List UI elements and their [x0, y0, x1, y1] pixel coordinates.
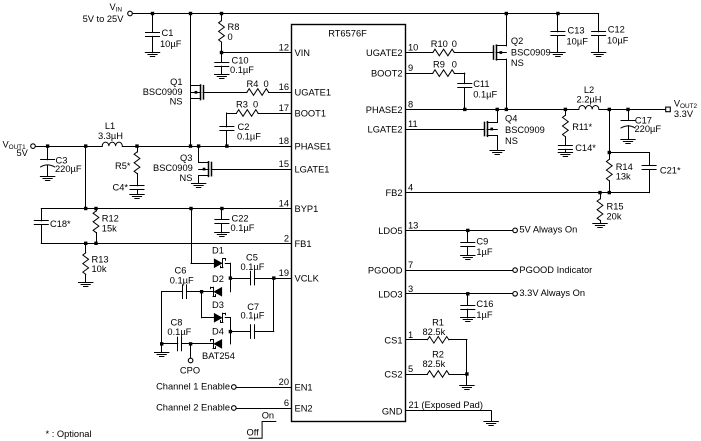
ground C4*	[130, 195, 144, 199]
svg-text:BSC0909: BSC0909	[143, 87, 183, 97]
svg-text:PHASE1: PHASE1	[295, 142, 332, 152]
svg-text:PGOOD Indicator: PGOOD Indicator	[519, 265, 592, 275]
svg-text:C18*: C18*	[50, 219, 71, 229]
svg-text:Q1: Q1	[170, 77, 182, 87]
svg-text:BOOT1: BOOT1	[295, 109, 327, 119]
capacitor C14*	[558, 143, 596, 153]
svg-text:LDO5: LDO5	[378, 226, 402, 236]
capacitor C9	[461, 230, 493, 257]
diode D2	[211, 274, 224, 297]
svg-text:D3: D3	[212, 300, 224, 310]
svg-text:1µF: 1µF	[476, 310, 493, 320]
wire pin 13 LDO5	[406, 229, 513, 232]
svg-text:R8: R8	[228, 22, 240, 32]
svg-text:1µF: 1µF	[476, 247, 493, 257]
svg-text:C8: C8	[171, 317, 183, 327]
terminal 3.3V Always On	[513, 288, 585, 298]
wire D4 to C8	[182, 342, 213, 345]
resistor R2	[423, 350, 449, 378]
svg-text:D2: D2	[212, 274, 224, 284]
ground C3	[40, 177, 54, 181]
node VOUT2 rail	[599, 108, 666, 111]
resistor R14	[606, 153, 632, 193]
svg-text:R3: R3	[236, 100, 248, 110]
svg-text:C2: C2	[238, 122, 250, 132]
wire R1 to CS join	[449, 339, 467, 341]
svg-text:FB1: FB1	[295, 239, 312, 249]
wire R2 to CS join	[449, 372, 469, 375]
svg-text:RT6576F: RT6576F	[328, 28, 367, 38]
svg-text:18: 18	[279, 136, 289, 146]
svg-text:R9: R9	[433, 60, 445, 70]
terminal Channel 1 Enable	[156, 382, 236, 392]
svg-text:14: 14	[279, 199, 289, 209]
wire R4 to pin 16 UGATE1	[269, 92, 292, 94]
wire VOUT1 to BYP1	[85, 146, 87, 208]
svg-text:8: 8	[408, 99, 413, 109]
svg-text:Q2: Q2	[511, 36, 523, 46]
svg-text:NS: NS	[170, 97, 183, 107]
svg-text:10µF: 10µF	[567, 36, 589, 46]
wire C7 to VCLK vertical	[255, 278, 274, 332]
capacitor C2	[220, 113, 261, 148]
resistor R5*	[115, 146, 140, 186]
svg-text:* : Optional: * : Optional	[46, 429, 92, 439]
svg-text:C9: C9	[476, 236, 488, 246]
svg-text:C21*: C21*	[660, 165, 681, 175]
svg-text:PHASE2: PHASE2	[366, 105, 403, 115]
svg-text:6: 6	[284, 398, 289, 408]
capacitor C16	[461, 294, 494, 320]
svg-text:20k: 20k	[607, 212, 622, 222]
node FB1 rail	[41, 242, 291, 245]
svg-text:VCLK: VCLK	[295, 274, 320, 284]
capacitor C5	[241, 253, 265, 285]
wire EN1	[236, 387, 291, 389]
capacitor C11	[458, 73, 498, 109]
node FB2 rail	[406, 191, 650, 194]
svg-text:CS2: CS2	[384, 370, 402, 380]
wire pin 7 PGOOD	[406, 270, 513, 272]
resistor R3	[236, 100, 258, 117]
svg-text:CS1: CS1	[384, 335, 402, 345]
svg-text:0.1µF: 0.1µF	[230, 65, 254, 75]
svg-text:3.3V Always On: 3.3V Always On	[519, 288, 585, 298]
svg-text:19: 19	[279, 268, 289, 278]
diode D1	[212, 246, 226, 268]
inductor L1	[98, 121, 123, 146]
svg-text:Channel 1 Enable: Channel 1 Enable	[156, 382, 230, 392]
node PHASE1 VOUT1 rail	[35, 144, 291, 147]
svg-text:NS: NS	[511, 58, 524, 68]
wire charge pump left rail	[160, 292, 163, 353]
wire Q2 source to PHASE2	[506, 59, 508, 109]
wire C7 left	[230, 331, 250, 333]
terminal VOUT2	[666, 98, 698, 119]
svg-text:BSC0909: BSC0909	[505, 125, 545, 135]
capacitor C18*	[34, 209, 71, 244]
svg-text:L1: L1	[105, 121, 115, 131]
svg-text:3.3V: 3.3V	[674, 109, 694, 119]
svg-text:Q4: Q4	[505, 114, 517, 124]
resistor R8	[219, 14, 240, 53]
svg-text:C22: C22	[232, 213, 249, 223]
svg-text:0: 0	[264, 79, 269, 89]
svg-text:C1: C1	[162, 28, 174, 38]
svg-text:220µF: 220µF	[635, 124, 662, 134]
svg-text:VIN: VIN	[295, 48, 311, 58]
wire D1 to D2 vertical	[225, 263, 232, 292]
svg-text:0.1µF: 0.1µF	[241, 311, 265, 321]
svg-text:PGOOD: PGOOD	[368, 266, 403, 276]
svg-text:17: 17	[279, 103, 289, 113]
wire C5 left	[230, 278, 250, 280]
svg-text:NS: NS	[180, 173, 193, 183]
svg-text:Off: Off	[247, 428, 260, 438]
wire pin 1 CS1 to R1	[406, 339, 428, 341]
svg-text:15: 15	[279, 159, 289, 169]
svg-text:R4: R4	[247, 79, 259, 89]
resistor R10	[431, 39, 457, 56]
svg-text:5V to 25V: 5V to 25V	[83, 14, 125, 24]
svg-text:UGATE2: UGATE2	[366, 48, 403, 58]
svg-text:0.1µF: 0.1µF	[473, 89, 497, 99]
svg-text:10µF: 10µF	[607, 35, 629, 45]
svg-text:R15: R15	[607, 201, 624, 211]
node VIN rail	[132, 12, 598, 15]
resistor R4	[247, 79, 269, 95]
svg-text:0.1µF: 0.1µF	[241, 262, 265, 272]
capacitor C13	[551, 14, 588, 53]
wire pin 3 LDO3	[406, 292, 513, 295]
wire pin 9 BOOT2 to R9	[406, 73, 433, 75]
ground R15	[593, 224, 607, 228]
wire Q2 drain to VIN rail	[506, 14, 508, 46]
svg-text:220µF: 220µF	[55, 164, 82, 174]
svg-text:On: On	[262, 411, 274, 421]
resistor R1	[423, 318, 449, 344]
svg-text:GND: GND	[382, 407, 403, 417]
wire pin 21 GND	[406, 400, 492, 422]
svg-text:3.3µH: 3.3µH	[98, 131, 123, 141]
svg-text:BOOT2: BOOT2	[371, 69, 403, 79]
wire Q1 gate to R4	[203, 92, 247, 94]
capacitor C1	[146, 14, 182, 53]
capacitor C4*	[112, 182, 144, 194]
svg-text:C6: C6	[175, 266, 187, 276]
svg-text:R11*: R11*	[572, 122, 592, 132]
wire pin 5 CS2 to R2	[406, 374, 428, 376]
ground C10	[215, 75, 229, 79]
svg-text:Q3: Q3	[180, 153, 192, 163]
svg-text:R13: R13	[92, 254, 109, 264]
svg-text:2.2µH: 2.2µH	[577, 95, 602, 105]
svg-text:IN: IN	[116, 7, 123, 14]
svg-text:C13: C13	[568, 26, 585, 36]
node PHASE2 rail	[406, 108, 579, 111]
terminal VOUT1	[3, 140, 36, 159]
svg-text:1: 1	[408, 330, 413, 340]
ground C1	[145, 53, 159, 57]
svg-text:82.5k: 82.5k	[423, 327, 446, 337]
svg-text:0: 0	[452, 39, 457, 49]
ground C22	[215, 233, 229, 237]
svg-text:7: 7	[408, 260, 413, 270]
wire D3 to D4 vertical	[225, 318, 232, 344]
svg-text:4: 4	[408, 183, 413, 193]
svg-text:16: 16	[279, 82, 289, 92]
svg-text:10k: 10k	[92, 264, 107, 274]
terminal VIN	[83, 2, 133, 24]
svg-text:C4*: C4*	[112, 182, 128, 192]
svg-text:R5*: R5*	[115, 161, 131, 171]
terminal Channel 2 Enable	[156, 403, 236, 413]
svg-text:9: 9	[408, 63, 413, 73]
svg-text:LGATE1: LGATE1	[295, 165, 330, 175]
wire R10 to Q2 gate	[454, 52, 493, 54]
svg-text:13: 13	[408, 220, 418, 230]
ground R13	[79, 283, 93, 287]
svg-text:5: 5	[408, 364, 413, 374]
svg-text:0: 0	[228, 32, 233, 42]
wire R3 to C2 corner	[227, 113, 237, 115]
capacitor C22	[215, 209, 255, 233]
capacitor C6	[162, 266, 202, 299]
svg-text:0: 0	[452, 60, 457, 70]
transistor Q2	[494, 36, 551, 68]
svg-text:5V Always On: 5V Always On	[519, 224, 577, 234]
svg-text:D1: D1	[212, 246, 224, 256]
wire D2 junction to D3	[202, 292, 215, 318]
ground charge pump	[155, 353, 169, 357]
ground Q3	[191, 184, 205, 188]
diode D4	[202, 327, 235, 361]
svg-text:EN1: EN1	[295, 383, 313, 393]
wire R9 to C11	[454, 73, 465, 75]
svg-text:EN2: EN2	[295, 404, 313, 414]
wire D2 to junction	[200, 290, 213, 293]
wire Q1 drain-source	[190, 14, 192, 147]
svg-text:L2: L2	[584, 85, 594, 95]
svg-text:Channel 2 Enable: Channel 2 Enable	[156, 403, 230, 413]
resistor R13	[83, 243, 109, 282]
ground exposed pad	[484, 422, 498, 426]
resistor R9	[433, 60, 457, 77]
wire pin 11 LGATE2 to Q4 gate	[406, 129, 485, 131]
wire pin 17 BOOT1 to R3	[258, 113, 292, 115]
transistor Q1	[143, 77, 204, 107]
svg-text:12: 12	[279, 43, 289, 53]
svg-text:13k: 13k	[616, 171, 631, 181]
svg-text:R10: R10	[431, 39, 448, 49]
svg-text:3: 3	[408, 284, 413, 294]
svg-text:0.1µF: 0.1µF	[237, 132, 261, 142]
diode D3	[212, 300, 226, 322]
terminal PGOOD Indicator	[513, 265, 592, 275]
wire Q4 source to ground	[497, 136, 499, 151]
wire Q3 gate to pin 15 LGATE1	[211, 169, 291, 171]
resistor R15	[597, 193, 623, 224]
wire Q3 source to ground	[198, 176, 200, 183]
svg-text:R12: R12	[102, 214, 119, 224]
capacitor C21*	[642, 165, 681, 192]
ground C9	[461, 256, 475, 260]
ground C16	[461, 318, 475, 322]
capacitor C7	[241, 302, 265, 338]
svg-text:C16: C16	[476, 299, 493, 309]
wire EN2	[236, 408, 291, 410]
ground C13	[551, 53, 565, 57]
wire VOUT2 to divider	[608, 109, 611, 154]
ground Q4	[490, 151, 504, 155]
wire CS join vertical	[466, 340, 468, 386]
wire Q4 drain to PHASE2	[497, 109, 499, 122]
svg-text:0.1µF: 0.1µF	[170, 275, 194, 285]
wire C5 to pin 19 VCLK	[255, 276, 292, 279]
wire pin 10 UGATE2 to R10	[406, 52, 433, 54]
node BYP1 rail	[41, 207, 291, 210]
svg-text:FB2: FB2	[385, 188, 402, 198]
ground C12	[591, 53, 605, 57]
svg-text:0: 0	[253, 100, 258, 110]
svg-text:BSC0909: BSC0909	[511, 48, 551, 58]
svg-text:LGATE2: LGATE2	[368, 125, 403, 135]
svg-text:C14*: C14*	[575, 143, 596, 153]
ground CS join	[460, 386, 474, 390]
svg-text:5V: 5V	[17, 148, 29, 158]
U1 pin labels and pin numbers	[279, 43, 419, 417]
svg-text:CPO: CPO	[180, 365, 200, 375]
node optional note	[46, 429, 92, 439]
svg-text:C5: C5	[246, 253, 258, 263]
svg-text:2: 2	[284, 233, 289, 243]
svg-text:82.5k: 82.5k	[423, 359, 446, 369]
svg-text:0.1µF: 0.1µF	[231, 223, 255, 233]
capacitor C10	[215, 53, 254, 76]
ground C17	[621, 140, 635, 144]
wire Q3 drain	[198, 146, 200, 162]
svg-text:C12: C12	[608, 25, 625, 35]
svg-text:UGATE1: UGATE1	[295, 88, 332, 98]
wire BYP1 to D1	[191, 209, 214, 264]
svg-text:C10: C10	[232, 56, 249, 66]
svg-text:D4: D4	[212, 327, 224, 337]
svg-text:0.1µF: 0.1µF	[167, 327, 191, 337]
transistor Q4	[485, 114, 545, 147]
svg-text:10: 10	[408, 43, 418, 53]
resistor R12	[93, 209, 119, 244]
capacitor C17	[621, 109, 661, 139]
wire R8 to pin 12 VIN	[220, 51, 292, 54]
capacitor C8	[162, 317, 192, 350]
capacitor C12	[592, 14, 629, 53]
svg-text:BYP1: BYP1	[295, 204, 319, 214]
transistor Q3	[153, 153, 212, 183]
svg-text:NS: NS	[505, 136, 518, 146]
resistor R11*	[563, 109, 593, 145]
svg-text:LDO3: LDO3	[378, 289, 402, 299]
svg-text:10µF: 10µF	[160, 39, 182, 49]
terminal CPO	[180, 344, 200, 375]
svg-text:BAT254: BAT254	[202, 351, 235, 361]
svg-text:C11: C11	[473, 79, 489, 89]
op-amp U1 RT6576F IC body	[292, 25, 406, 422]
svg-text:21 (Exposed Pad): 21 (Exposed Pad)	[409, 400, 483, 410]
svg-text:15k: 15k	[102, 223, 117, 233]
inductor L2	[577, 85, 602, 110]
terminal 5V Always On	[513, 224, 577, 234]
svg-text:20: 20	[279, 377, 289, 387]
svg-text:11: 11	[408, 119, 418, 129]
svg-text:BSC0909: BSC0909	[153, 163, 193, 173]
capacitor C3	[41, 146, 82, 176]
node On Off level annotation	[247, 411, 276, 439]
ground C14*	[558, 153, 572, 157]
wire divider to C21 top	[609, 153, 649, 166]
